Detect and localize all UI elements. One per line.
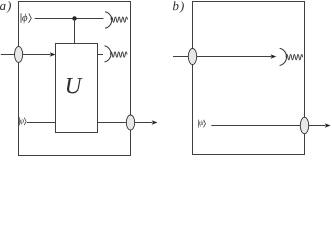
wire phi (top) xyxy=(35,18,104,20)
detector Db coil xyxy=(286,55,303,60)
op box U xyxy=(56,44,98,133)
detector D1 coil xyxy=(111,17,128,22)
ket |psi> label b xyxy=(198,120,200,128)
detector D2 arc xyxy=(105,46,111,62)
wire U to D2 xyxy=(98,54,104,56)
ket |psi> label a xyxy=(18,117,20,125)
ellipse port b-left xyxy=(188,49,196,65)
ellipse port a-right xyxy=(126,115,134,130)
label a) xyxy=(0,1,11,13)
detector D2 coil xyxy=(110,52,127,57)
ellipse port b-right xyxy=(300,117,308,133)
arrowhead before detector b xyxy=(270,54,276,58)
wire psi b with output arrow xyxy=(211,125,325,127)
label U xyxy=(67,78,83,93)
wire psi a (right of U) with output arrow xyxy=(98,122,153,124)
ket |phi> label xyxy=(21,13,31,22)
wire mid-left input xyxy=(1,54,51,56)
wire psi a (left of U) xyxy=(27,122,56,124)
outer box b xyxy=(193,2,305,155)
node junction dot xyxy=(72,16,76,20)
arrowhead into U xyxy=(50,52,56,56)
ellipse port a-left xyxy=(15,47,23,63)
wire vertical from dot to U xyxy=(74,19,76,44)
arrowhead output a xyxy=(152,120,158,124)
arrowhead output b xyxy=(325,123,331,127)
wire mid b input xyxy=(173,56,272,58)
label b) xyxy=(173,1,184,13)
detector D1 arc xyxy=(105,12,112,29)
outer box a xyxy=(19,2,131,156)
detector Db arc xyxy=(280,48,287,65)
